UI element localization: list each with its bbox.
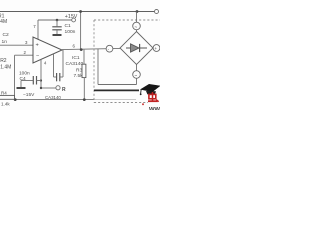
resistor R2 label (0, 58, 11, 71)
node junction C1 tap (56, 19, 59, 22)
svg-text:~: ~ (134, 73, 137, 78)
ground C4 (17, 87, 26, 89)
node meter terminal left (106, 45, 113, 52)
svg-text:1.4M: 1.4M (0, 19, 7, 25)
svg-text:C2: C2 (3, 32, 10, 38)
node junction R2 bottom (14, 98, 17, 101)
wire R2 branch vertical (14, 55, 16, 99)
pin 2 label (24, 50, 27, 55)
svg-text:CA3140: CA3140 (66, 61, 84, 67)
op-amp U1 CA3140 (33, 37, 62, 63)
svg-text:R2: R2 (0, 58, 7, 64)
svg-text:1n: 1n (2, 39, 8, 45)
faint ghost text (45, 95, 61, 100)
watermark logo cap (140, 84, 161, 95)
svg-text:~: ~ (134, 24, 137, 29)
pin 4 label (44, 61, 47, 66)
watermark red glyph (142, 92, 159, 105)
node junction R3 bottom (83, 98, 86, 101)
svg-text:1.4M: 1.4M (0, 64, 11, 70)
svg-text:3: 3 (25, 40, 28, 45)
svg-text:ww: ww (148, 106, 160, 110)
capacitor C1 (52, 20, 75, 35)
resistor R3 (74, 50, 86, 100)
wire inverting input (15, 54, 34, 56)
capacitor C4 (19, 70, 41, 87)
node -15V terminal (23, 86, 66, 98)
node junction pin4 C4 (40, 79, 42, 89)
resistor R4 (0, 90, 15, 106)
op-amp labels IC1 CA3140 (66, 55, 84, 67)
svg-text:−: − (36, 53, 39, 59)
resistor R1 label (0, 14, 7, 26)
wire bridge top feed (136, 12, 138, 32)
svg-text:2: 2 (24, 50, 27, 55)
watermark www text (148, 106, 160, 113)
node meter terminal top (133, 22, 141, 30)
pin 3 label (25, 40, 28, 45)
svg-text:4: 4 (44, 61, 47, 66)
pin 4 wire to -15V (41, 59, 56, 88)
wire feedback from output to top rail (80, 12, 82, 50)
node top-right terminal (155, 10, 159, 14)
capacitor C2 label (2, 32, 10, 45)
wire bottom rail (14, 99, 136, 101)
node +15V terminal (65, 14, 78, 22)
ground C1 (53, 34, 62, 36)
node meter terminal bottom (133, 71, 141, 79)
svg-text:IC1: IC1 (72, 55, 80, 61)
pin 6 label (73, 44, 76, 49)
watermark underline (94, 89, 139, 91)
wire top feedback rail (0, 11, 156, 13)
svg-text:+15V: +15V (65, 14, 78, 20)
node junction feedback top (79, 10, 82, 13)
svg-text:C1: C1 (65, 23, 72, 29)
svg-text:100n: 100n (19, 70, 30, 76)
diode inside bridge (126, 44, 147, 52)
wire bridge return path (98, 49, 137, 85)
wire bridge bottom stem (136, 65, 138, 85)
pin 7 label (33, 24, 36, 29)
pin 5 line with compensation capacitor (54, 50, 64, 82)
svg-text:100n: 100n (65, 29, 76, 35)
svg-text:R4: R4 (1, 90, 7, 95)
svg-text:7.5k: 7.5k (74, 73, 84, 79)
node meter terminal right (153, 45, 160, 52)
svg-text:1.4k: 1.4k (1, 102, 10, 107)
node junction output (80, 48, 83, 51)
svg-text:+: + (154, 46, 157, 51)
wire +15V supply line (38, 20, 72, 40)
svg-text:7: 7 (33, 24, 36, 29)
bridge rectifier diamond (120, 32, 153, 65)
node junction top rail (136, 10, 139, 13)
wire op-amp output (62, 48, 120, 49)
dashed meter box (94, 20, 160, 103)
svg-text:C4: C4 (20, 76, 26, 82)
svg-text:R3: R3 (76, 68, 82, 74)
svg-text:+: + (36, 43, 39, 49)
wire non-inverting input (0, 44, 33, 46)
svg-text:−15V: −15V (23, 92, 35, 98)
svg-text:R: R (62, 87, 66, 93)
svg-text:6: 6 (73, 44, 76, 49)
